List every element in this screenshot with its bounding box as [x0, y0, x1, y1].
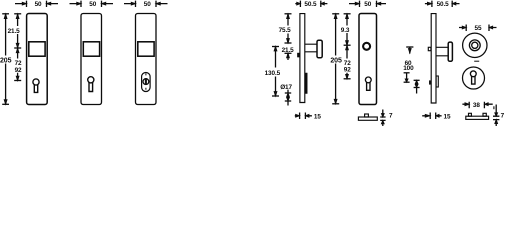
side view 1 plate [300, 14, 305, 103]
square handle hole P3 [138, 42, 154, 56]
dimension 50 (plate B top) [349, 1, 386, 7]
knob ring on plate B [363, 43, 370, 50]
svg-text:21.5: 21.5 [8, 28, 21, 35]
svg-text:Ø17: Ø17 [280, 84, 292, 91]
svg-text:75.5: 75.5 [279, 27, 292, 34]
svg-text:50: 50 [364, 1, 371, 8]
svg-text:7: 7 [501, 113, 505, 120]
dimension 50 (plate 1 top) [15, 1, 58, 7]
dimension 50.5 (side view 2 top) [425, 1, 460, 7]
svg-text:100: 100 [403, 65, 414, 72]
dimension 205 (stack B left line) [332, 14, 339, 104]
knob 2 cap [448, 42, 452, 61]
dimension 7 (profile C) [493, 105, 499, 127]
svg-text:21.5: 21.5 [282, 47, 295, 54]
plate P2 (PZ cylinder plate) [81, 14, 102, 105]
PZ keyhole plate B [365, 77, 371, 90]
svg-text:50: 50 [144, 1, 151, 8]
spindle bump side view 2 [428, 47, 431, 50]
rosette 2 (key rosette) [463, 67, 485, 89]
svg-text:15: 15 [444, 114, 451, 121]
cross-section profile C [466, 116, 489, 119]
plate P1 (BB key plate) [27, 14, 48, 105]
square handle hole P2 [83, 42, 99, 56]
dimension 50 (plate 2 top) [70, 1, 114, 7]
knob 1 stem [305, 44, 317, 52]
knob 1 cap [317, 40, 322, 58]
svg-text:50: 50 [35, 1, 42, 8]
PZ keyhole P2 [88, 77, 94, 92]
svg-text:130.5: 130.5 [265, 70, 281, 77]
dimension 130.5 (stack A left line) [272, 47, 279, 97]
knob 2 stem [436, 47, 448, 56]
plate B (knob plate, front view) [359, 14, 377, 105]
spindle nub side view 1 [297, 53, 300, 57]
svg-text:55: 55 [475, 25, 482, 32]
plate P3 (WC plate) [136, 14, 157, 105]
svg-text:50.5: 50.5 [437, 1, 450, 8]
cylinder bump side view 1 (right side) [305, 73, 307, 94]
square handle hole P1 [29, 42, 45, 56]
dimension 7 (profile B) [380, 110, 385, 127]
stack C small dim (cylinder) [414, 80, 420, 93]
PZ keyhole rosette 2 [470, 71, 476, 84]
dimension 205 (left vertical line) [2, 14, 9, 105]
dimension 38 (rosette 2) [462, 102, 492, 108]
extension corner mark above profile C [493, 106, 495, 109]
dimension 9.3 / 72 / 92 (stack B right line) [344, 14, 351, 79]
svg-text:50.5: 50.5 [304, 1, 317, 8]
side view 2 plate [431, 14, 436, 103]
svg-text:92: 92 [15, 67, 22, 74]
svg-text:38: 38 [473, 102, 480, 109]
svg-text:50: 50 [89, 1, 96, 8]
dimension 21.5 / 72 / 92 (right vertical line group 1) [14, 14, 21, 81]
dimension 15 (side view 2 bottom) [422, 113, 441, 120]
cylinder bump side view 2 [436, 76, 438, 87]
svg-text:7: 7 [389, 112, 393, 119]
small left nub side view 2 [429, 81, 431, 85]
small dash between rosettes [474, 60, 479, 62]
cross-section profile B [358, 117, 377, 120]
dimension 15 (side view 1 bottom) [295, 113, 312, 120]
BB keyhole P1 [33, 79, 39, 93]
svg-text:205: 205 [330, 57, 342, 64]
rosette 1 (knob rosette) [463, 33, 487, 57]
svg-text:92: 92 [344, 67, 351, 74]
svg-text:205: 205 [0, 57, 12, 64]
svg-text:9.3: 9.3 [341, 27, 350, 34]
dimension 50 (plate 3 top) [124, 1, 168, 7]
dimension 50.5 (side view 1 top) [295, 1, 327, 7]
dimension 55 (rosette 1) [459, 25, 497, 32]
dimension line 75.5 / 21.5 (stack A right line) [285, 14, 292, 60]
stack C dimension (60 / 100) [404, 47, 414, 82]
svg-text:15: 15 [314, 114, 321, 121]
WC oval + turn knob P3 [142, 73, 151, 92]
